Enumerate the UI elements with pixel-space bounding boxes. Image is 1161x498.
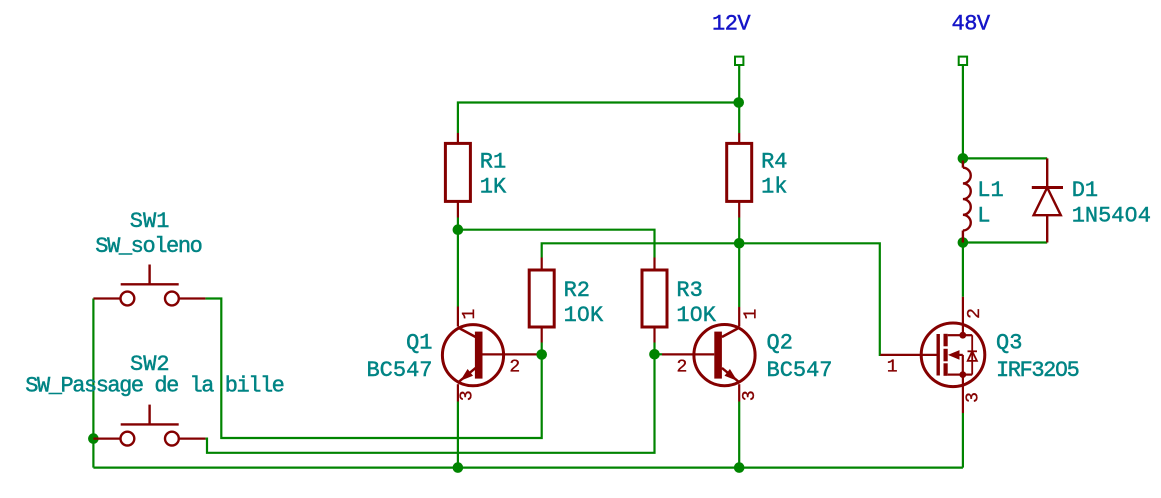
wire 12V pin to R4 top bbox=[738, 65, 740, 133]
power flag 12V unconnected end bbox=[735, 57, 743, 65]
junction node SW2 left bbox=[88, 433, 99, 444]
switch SW2 bbox=[93, 405, 205, 446]
svg-text:1K: 1K bbox=[480, 174, 507, 199]
wire L1 top to D1 top bbox=[963, 157, 1047, 159]
svg-text:IRF3205: IRF3205 bbox=[996, 358, 1079, 383]
wire Q1 emitter to bus bbox=[457, 402, 459, 468]
wire SW1 left down to bottom bus bbox=[92, 299, 94, 468]
svg-text:R1: R1 bbox=[480, 150, 506, 175]
svg-text:BC547: BC547 bbox=[366, 358, 432, 383]
junction node R4 bottom bbox=[734, 238, 745, 249]
mosfet Q3 bbox=[880, 297, 984, 413]
junction node Q1 base bbox=[536, 349, 547, 360]
svg-text:L1: L1 bbox=[977, 178, 1003, 203]
resistor R1 bbox=[445, 133, 470, 218]
svg-text:Q2: Q2 bbox=[767, 331, 793, 356]
switch SW1 bbox=[93, 265, 205, 306]
pin 3 Q3 bbox=[964, 392, 984, 403]
svg-text:1: 1 bbox=[460, 309, 480, 320]
wire bottom bus bbox=[93, 467, 963, 469]
transistor Q2 bbox=[662, 307, 755, 402]
svg-text:R2: R2 bbox=[564, 278, 590, 303]
power flag 48V unconnected end bbox=[959, 57, 967, 65]
pin 1 Q2 bbox=[741, 309, 761, 320]
wire R2 bottom pin to node bbox=[541, 343, 543, 355]
wire R4 bottom to Q2 collector bbox=[738, 218, 740, 308]
junction node Q2 base bbox=[649, 349, 660, 360]
svg-text:BC547: BC547 bbox=[767, 358, 833, 383]
resistor R2 bbox=[529, 258, 554, 343]
junction node 12V rail bbox=[733, 97, 744, 108]
svg-text:Q3: Q3 bbox=[996, 331, 1022, 356]
pin 2 Q3 bbox=[965, 308, 985, 319]
wire R1 bottom to node bbox=[457, 218, 459, 230]
svg-text:1N5404: 1N5404 bbox=[1072, 203, 1151, 228]
wire Q2 emitter to bus bbox=[738, 402, 740, 468]
resistor R3 bbox=[642, 258, 667, 343]
pin 3 Q2 bbox=[740, 390, 760, 401]
wire R3 bottom pin to node bbox=[653, 343, 655, 355]
svg-text:SW_soleno: SW_soleno bbox=[95, 234, 201, 259]
zero dot patches bbox=[581, 211, 1133, 370]
wire node R1 to R3 top bbox=[458, 230, 655, 258]
junction node R1 bottom bbox=[453, 224, 464, 235]
junction node L1 top bbox=[958, 153, 969, 164]
svg-text:3: 3 bbox=[740, 390, 760, 401]
pin 3 Q1 bbox=[457, 390, 477, 401]
wire Q1 base to R2 bottom node bbox=[537, 353, 542, 355]
junction node Q1 emitter bus bbox=[453, 462, 464, 473]
svg-text:R3: R3 bbox=[676, 278, 702, 303]
svg-text:3: 3 bbox=[457, 390, 477, 401]
wire L1 bottom to Q3 drain bbox=[962, 243, 964, 297]
svg-text:1k: 1k bbox=[761, 174, 787, 199]
svg-text:12V: 12V bbox=[712, 12, 751, 37]
svg-text:2: 2 bbox=[509, 358, 520, 378]
wire node R1 down to Q1 collector bbox=[457, 230, 459, 307]
wire R2 top to Q3 gate bbox=[542, 243, 881, 355]
transistor Q1 bbox=[442, 307, 536, 402]
svg-text:SW1: SW1 bbox=[130, 209, 170, 234]
junction node Q2 emitter bus bbox=[734, 462, 745, 473]
junction node L1 bottom bbox=[958, 237, 969, 248]
svg-text:2: 2 bbox=[677, 358, 688, 378]
inductor L1 bbox=[963, 161, 971, 243]
resistor R4 bbox=[727, 133, 752, 218]
svg-text:1: 1 bbox=[887, 358, 898, 378]
wire Q3 source to bus bbox=[962, 413, 964, 468]
svg-text:1: 1 bbox=[741, 309, 761, 320]
svg-text:L: L bbox=[977, 203, 990, 228]
pin 1 Q1 bbox=[460, 309, 480, 320]
svg-text:SW_Passage de la bille: SW_Passage de la bille bbox=[25, 374, 283, 399]
wire top 12V rail to R1 bbox=[458, 103, 739, 134]
wire D1 bottom to L1 bottom bbox=[963, 241, 1047, 243]
svg-text:R4: R4 bbox=[761, 150, 787, 175]
svg-text:2: 2 bbox=[965, 308, 985, 319]
svg-text:3: 3 bbox=[964, 392, 984, 403]
svg-text:Q1: Q1 bbox=[406, 331, 432, 356]
diode D1 bbox=[1032, 158, 1063, 242]
wire Q2 base to node bbox=[655, 353, 663, 355]
wire node Q1 base down to SW1 row bbox=[205, 299, 541, 439]
svg-text:48V: 48V bbox=[952, 12, 991, 37]
wire 48V pin down to L1 bbox=[962, 65, 964, 161]
wire node Q2 base down to SW2 row bbox=[205, 354, 654, 453]
svg-text:D1: D1 bbox=[1072, 178, 1098, 203]
